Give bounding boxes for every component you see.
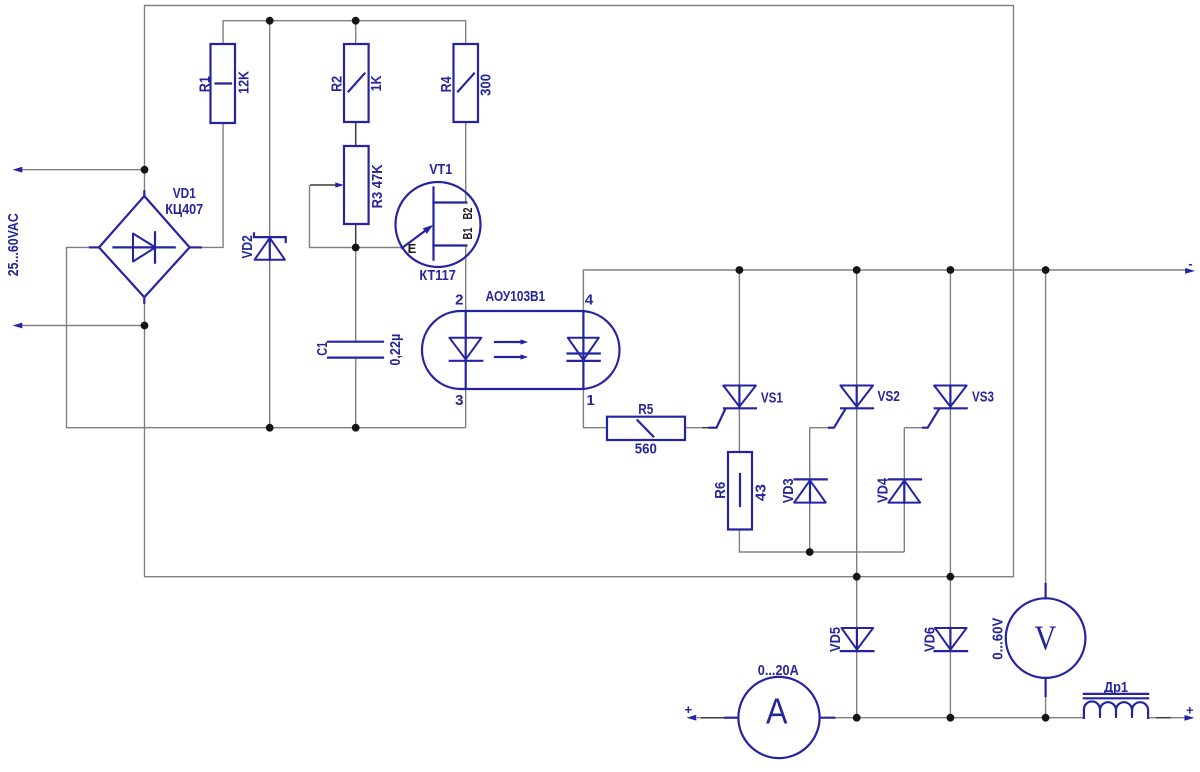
svg-text:1: 1: [586, 392, 594, 409]
svg-text:12K: 12K: [237, 70, 253, 93]
svg-text:Др1: Др1: [1104, 680, 1128, 696]
svg-text:VD5: VD5: [828, 627, 844, 652]
svg-text:VT1: VT1: [429, 162, 452, 178]
svg-text:R5: R5: [638, 402, 653, 418]
svg-text:R3 47K: R3 47K: [370, 164, 386, 208]
svg-text:VD4: VD4: [876, 478, 892, 503]
svg-text:1K: 1K: [369, 75, 385, 91]
svg-text:B1: B1: [461, 227, 475, 239]
svg-text:300: 300: [479, 74, 495, 96]
svg-text:-: -: [1188, 256, 1192, 271]
svg-text:0...20A: 0...20A: [758, 663, 799, 679]
svg-text:VD1: VD1: [173, 186, 196, 202]
svg-text:R2: R2: [330, 76, 346, 92]
svg-text:V: V: [1034, 619, 1056, 658]
svg-text:VS2: VS2: [877, 389, 900, 405]
svg-text:4: 4: [585, 291, 594, 308]
svg-text:R4: R4: [439, 76, 455, 92]
svg-text:43: 43: [753, 484, 769, 501]
svg-text:VS3: VS3: [972, 390, 994, 406]
svg-text:2: 2: [455, 291, 463, 308]
svg-text:КЦ407: КЦ407: [165, 202, 203, 218]
svg-text:25...60VAC: 25...60VAC: [6, 213, 22, 276]
svg-text:B2: B2: [461, 207, 475, 219]
svg-text:VD3: VD3: [781, 478, 797, 503]
svg-text:E: E: [408, 241, 417, 256]
svg-text:VS1: VS1: [761, 391, 783, 407]
svg-text:КТ117: КТ117: [419, 268, 456, 284]
svg-text:3: 3: [455, 392, 463, 409]
svg-text:0...60V: 0...60V: [991, 617, 1007, 659]
svg-text:VD2: VD2: [240, 235, 256, 259]
svg-text:C1: C1: [315, 342, 331, 356]
svg-text:АОУ103В1: АОУ103В1: [486, 289, 546, 305]
svg-text:560: 560: [635, 441, 657, 457]
svg-text:VD6: VD6: [922, 627, 938, 652]
svg-text:А: А: [766, 691, 788, 732]
svg-text:+: +: [685, 702, 693, 717]
svg-text:+: +: [1186, 703, 1194, 718]
svg-text:0,22µ: 0,22µ: [388, 334, 404, 366]
svg-text:R1: R1: [198, 76, 214, 92]
svg-text:R6: R6: [713, 482, 729, 499]
